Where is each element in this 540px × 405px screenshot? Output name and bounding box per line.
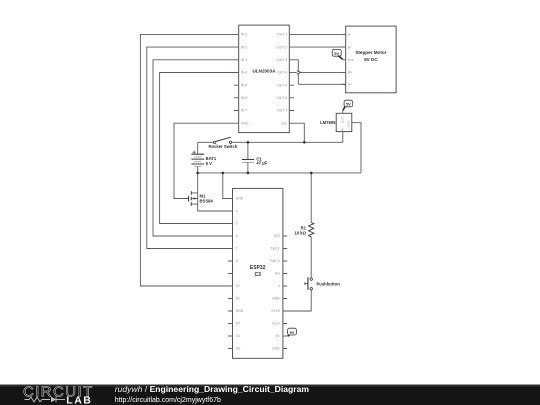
svg-text:GND: GND — [272, 297, 280, 301]
net flag 5V at U2 OUT — [343, 100, 353, 113]
svg-text:OUT: OUT — [341, 117, 345, 124]
svg-text:IN 5: IN 5 — [241, 83, 247, 87]
U1 pin stubs OUT5 OUT6 OUT7 — [289, 85, 294, 110]
svg-text:GND: GND — [241, 121, 249, 125]
stepper motor MOTOR1 body — [346, 26, 396, 93]
U3 unconnected left pin stubs — [228, 261, 232, 349]
svg-text:5V: 5V — [236, 322, 241, 326]
svg-text:OUT 4: OUT 4 — [277, 71, 287, 75]
svg-text:OUT 1: OUT 1 — [277, 33, 287, 37]
svg-text:D-19: D-19 — [272, 322, 279, 326]
wire U1 IN4 to U3 pin 5 — [160, 73, 239, 224]
junction dot rail2-C1 — [247, 172, 250, 175]
svg-text:IN 2: IN 2 — [241, 45, 247, 49]
svg-text:BSS84: BSS84 — [200, 198, 214, 203]
stepper pin stubs — [341, 34, 346, 84]
svg-text:Rocker Switch: Rocker Switch — [208, 144, 237, 149]
svg-text:OUT 7: OUT 7 — [277, 109, 287, 113]
wire rail to U3 GND — [223, 173, 233, 199]
svg-text:B+: B+ — [348, 71, 352, 75]
svg-text:RxD 0: RxD 0 — [270, 259, 280, 263]
pushbutton SW2 — [283, 237, 340, 311]
svg-text:LM7805: LM7805 — [320, 120, 336, 125]
svg-text:GND: GND — [272, 347, 280, 351]
wire U2 GND to ground rail — [352, 123, 361, 173]
junction chevron OUT3/OUT4 — [297, 71, 301, 75]
junction dot rail1-C1 — [247, 141, 250, 144]
svg-text:Vcc: Vcc — [348, 58, 354, 62]
svg-text:D+18: D+18 — [271, 309, 279, 313]
wire U1 OUT2 to stepper B — [289, 46, 345, 48]
svg-text:ULN2003A: ULN2003A — [253, 68, 277, 73]
IC U1 ULN2003A body — [239, 25, 290, 133]
svg-text:OUT 5: OUT 5 — [277, 83, 287, 87]
svg-text:5V DC: 5V DC — [364, 57, 378, 62]
svg-text:10 kΩ: 10 kΩ — [294, 230, 306, 235]
svg-text:C3: C3 — [254, 272, 261, 278]
svg-text:IN 3: IN 3 — [241, 58, 247, 62]
svg-text:TxD 1: TxD 1 — [271, 247, 280, 251]
svg-text:GND: GND — [236, 197, 244, 201]
junction dot rail2-U3 GND — [222, 172, 225, 175]
wire U1 OUT4 to stepper B+ — [289, 71, 345, 73]
svg-text:B-: B- — [348, 45, 351, 49]
svg-text:3V3: 3V3 — [274, 234, 280, 238]
wire branch to stepper A+ — [298, 83, 345, 85]
battery BAT1 — [191, 142, 216, 193]
U1 pin stubs IN5 IN6 IN7 — [234, 85, 239, 110]
svg-text:IN 7: IN 7 — [241, 109, 247, 113]
svg-text:47 µF: 47 µF — [256, 160, 267, 165]
svg-text:IN 4: IN 4 — [241, 71, 247, 75]
svg-text:LAB: LAB — [66, 395, 92, 405]
svg-text:IN 6: IN 6 — [241, 96, 247, 100]
svg-text:Vcc: Vcc — [281, 121, 287, 125]
capacitor C1 — [242, 142, 268, 173]
junction dot rail2-R1 — [310, 172, 313, 175]
resistor R1 — [294, 173, 313, 237]
svg-text:IN 1: IN 1 — [241, 33, 247, 37]
junction dot battery negative — [196, 172, 199, 175]
voltage regulator U2 LM7805 body — [320, 113, 352, 131]
svg-text:OUT 3: OUT 3 — [277, 58, 287, 62]
svg-text:4: 4 — [236, 209, 238, 213]
svg-text:8: 8 — [236, 259, 238, 263]
svg-text:5V: 5V — [236, 297, 241, 301]
U3 unconnected right pin stubs — [283, 236, 287, 349]
IC U3 ESP32 C3 body — [233, 188, 283, 358]
footer text — [115, 384, 310, 404]
wire U1 GND to M1 gate — [174, 123, 239, 198]
transistor M1 BSS84 — [189, 191, 233, 211]
svg-text:5: 5 — [236, 222, 238, 226]
svg-text:EN: EN — [275, 272, 280, 276]
svg-text:A+: A+ — [348, 83, 352, 87]
CircuitLab logo — [23, 384, 94, 405]
svg-text:G1: G1 — [236, 334, 241, 338]
svg-text:http://circuitlab.com/cj2myjwy: http://circuitlab.com/cj2myjwytf67b — [115, 397, 221, 404]
wire U1 IN3 to U3 pin 6 — [153, 60, 239, 236]
svg-text:10: 10 — [236, 284, 240, 288]
junction dot rail1-U1 Vcc — [303, 141, 306, 144]
wire U1 IN1 to U3 pin 10 — [140, 34, 238, 286]
net flag 5V at stepper Vcc — [332, 49, 342, 59]
svg-text:9: 9 — [278, 284, 280, 288]
svg-text:7: 7 — [236, 247, 238, 251]
wire U1 OUT3 down to OUT4 net — [289, 60, 298, 85]
svg-text:A-: A- — [348, 33, 351, 37]
svg-text:5V: 5V — [276, 334, 281, 338]
svg-text:5V: 5V — [290, 330, 295, 335]
svg-text:GND: GND — [236, 309, 244, 313]
svg-text:6: 6 — [236, 234, 238, 238]
svg-text:Stepper Motor: Stepper Motor — [355, 50, 386, 55]
svg-text:Pushbutton: Pushbutton — [317, 281, 341, 286]
switch SW1 Rocker Switch — [198, 132, 343, 149]
svg-text:G0: G0 — [236, 347, 241, 351]
svg-text:9 V: 9 V — [206, 161, 212, 166]
net flag 5V at U3 right 5V pin — [283, 328, 297, 336]
svg-text:ESP32: ESP32 — [250, 265, 266, 271]
ground rail wire (battery negative) — [198, 172, 361, 174]
svg-text:rudywh / Engineering_Drawing_C: rudywh / Engineering_Drawing_Circuit_Dia… — [115, 384, 310, 394]
footer bar — [0, 385, 540, 405]
wire U1 OUT1 to stepper A — [289, 33, 345, 35]
svg-text:IN: IN — [341, 128, 345, 131]
wire U1 Vcc down to 9V rail — [289, 123, 304, 142]
svg-text:GND: GND — [347, 120, 351, 128]
svg-text:OUT 6: OUT 6 — [277, 96, 287, 100]
wire U1 IN2 to U3 pin 7 — [147, 47, 239, 248]
svg-text:5V: 5V — [346, 102, 351, 107]
svg-text:OUT 2: OUT 2 — [277, 45, 287, 49]
